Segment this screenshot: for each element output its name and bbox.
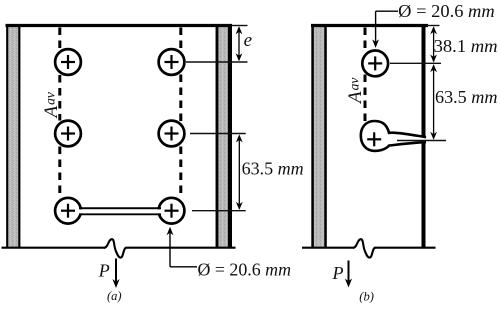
svg-text:Ø = 20.6 mm: Ø = 20.6 mm (398, 1, 494, 21)
svg-text:P: P (332, 263, 344, 283)
svg-text:Ø = 20.6 mm: Ø = 20.6 mm (198, 260, 292, 280)
svg-text:63.5 mm: 63.5 mm (242, 159, 304, 179)
svg-text:P: P (98, 261, 110, 281)
svg-text:(b): (b) (359, 290, 374, 304)
svg-text:(a): (a) (107, 289, 122, 303)
svg-text:38.1 mm: 38.1 mm (434, 36, 498, 56)
svg-text:e: e (244, 30, 252, 51)
svg-text:63.5 mm: 63.5 mm (435, 87, 498, 107)
